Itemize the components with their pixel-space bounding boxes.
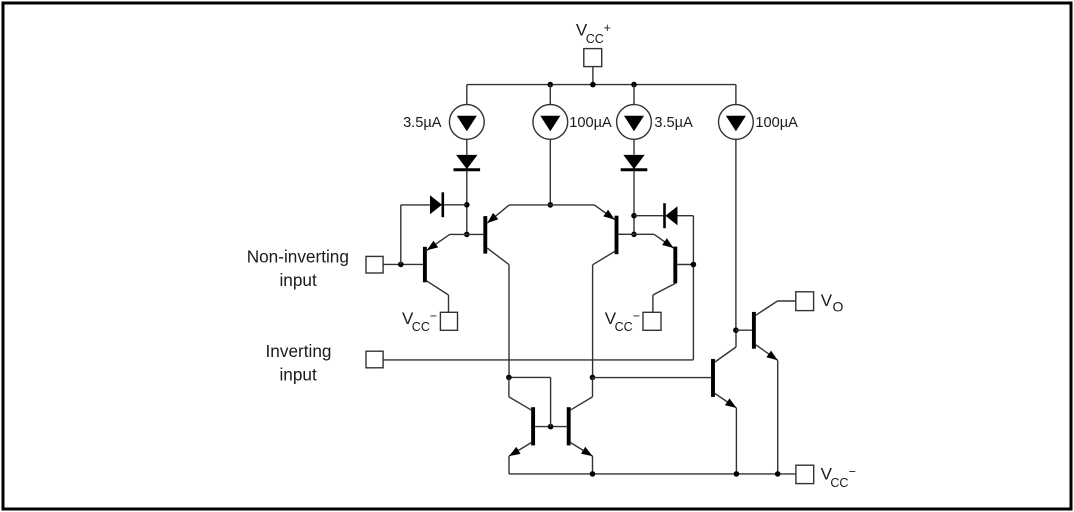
current source I2 100uA arrow triangle [540,116,560,132]
node bottom rail / Q5b emitter [590,471,596,477]
svg-text:−: − [430,309,437,323]
svg-text:O: O [833,299,844,315]
svg-text:CC: CC [830,476,848,490]
wire I3 to D2 [633,139,635,155]
diode D1 (vertical, anode up) [456,155,477,169]
wire node D to Q7 base [736,329,752,331]
wire D4/Q4-base riser to inverting input [692,216,694,360]
wire rail to I3 [633,85,635,105]
node rail-I3 junction [631,82,637,88]
svg-text:CC: CC [412,320,430,334]
wire D4 anode lead [678,215,694,217]
node E1 (Q2 collector / Q5a collector) [506,375,512,381]
svg-text:−: − [849,465,856,479]
transistor Q5b (current mirror output, NPN) base bar [567,407,571,445]
node C1 (D2 cathode / D4 cathode) [631,213,637,219]
svg-text:100µA: 100µA [755,115,798,131]
terminal VO square [796,292,814,311]
svg-text:100µA: 100µA [569,115,612,131]
transistor Q5a (current mirror, diode-connected, NPN) emitter diagonal [509,442,532,456]
wire I2 to node B [549,139,551,205]
diode D4 (input clamp, anode right) [663,203,666,228]
wire node C1 to D4 cathode [634,215,664,217]
wire node B to Q3 emitter [550,204,594,206]
wire mirror base link [535,426,567,428]
wire rail to I4 [735,85,737,105]
transistor Q6 (output driver, NPN) emitter arrow (NPN) [725,398,736,408]
transistor Q3 (diff pair right, PNP) emitter arrow (PNP) [603,210,614,220]
wire Q5b collector riser [592,377,594,397]
wire Q7 collector to VO [778,300,796,302]
transistor Q7 (output, NPN) base bar [752,312,756,349]
node rail-I2 junction [548,82,554,88]
wire D3 anode lead [401,204,430,206]
terminal VCC- (Q4 collector) square [643,312,661,330]
wire rail to I2 [549,85,551,105]
wire Q6 collector riser [735,330,737,347]
current source I4 100uA circle [719,105,754,140]
wire top rail [467,84,736,86]
wire Q1 emitter to node A2 [450,233,467,235]
wire Q1 collector drop [448,295,450,312]
diode D3 (input clamp, anode left) [430,195,442,214]
svg-text:V: V [821,291,833,310]
wire Q2 collector drop [508,265,510,378]
transistor Q4 (inverting input follower, PNP) emitter diagonal [654,234,674,248]
transistor Q2 (diff pair left, PNP) base bar [483,216,487,254]
transistor Q7 (output, NPN) emitter diagonal [756,345,778,361]
transistor Q5a (current mirror, diode-connected, NPN) base bar [531,407,535,445]
transistor Q5b (current mirror output, NPN) emitter diagonal [570,442,592,456]
wire Q5a emitter drop [508,456,510,474]
node A2 (Q1 emitter / Q2 base) [464,232,470,238]
terminal VCC- (bottom rail) square [796,465,814,483]
transistor Q2 (diff pair left, PNP) collector diagonal [487,248,509,265]
transistor Q4 (inverting input follower, PNP) base bar [673,247,677,284]
wire D1 to node A1/A2 [466,170,468,234]
svg-text:Non-inverting: Non-inverting [247,246,349,266]
wire node E2 to Q6 base [593,377,712,379]
wire node E1 to mirror base (diode connection) [509,376,551,378]
node non-inverting input / D3 anode [398,262,404,268]
terminal inverting input square [366,351,383,368]
node bottom rail / Q6 emitter [734,471,740,477]
node Q4 base / inverting riser [691,262,697,268]
transistor Q7 (output, NPN) collector diagonal [756,301,778,315]
transistor Q1 (non-inverting input follower, PNP) emitter arrow (PNP) [427,241,438,251]
svg-text:Inverting: Inverting [266,341,332,361]
wire Q4 collector drop [652,295,654,312]
wire Q4 base to riser [677,264,693,266]
svg-text:3.5µA: 3.5µA [403,115,442,131]
node C2 (Q4 emitter / Q3 base) [631,232,637,238]
transistor Q6 (output driver, NPN) collector diagonal [715,347,736,362]
wire VCC+ stem [592,67,594,85]
transistor Q1 (non-inverting input follower, PNP) collector diagonal [427,281,449,295]
current source I3 3.5uA circle [617,105,652,140]
transistor Q3 (diff pair right, PNP) collector diagonal [593,252,615,265]
transistor Q5a (current mirror, diode-connected, NPN) emitter arrow (NPN) [509,447,521,456]
transistor Q4 (inverting input follower, PNP) emitter arrow (PNP) [662,238,673,248]
transistor Q5a (current mirror, diode-connected, NPN) collector diagonal [509,397,532,410]
wire inverting input run [383,359,693,361]
wire non-inverting input to Q1 base [383,263,423,265]
node rail-VCC+ junction [590,82,596,88]
current source I4 100uA arrow triangle [726,116,746,132]
wire Q7 emitter drop [777,360,779,474]
transistor Q6 (output driver, NPN) base bar [711,359,715,397]
current source I2 100uA circle [533,105,568,140]
svg-text:input: input [279,270,316,290]
diode D2 (vertical, anode up) [623,155,644,169]
transistor Q5b (current mirror output, NPN) emitter arrow (NPN) [581,447,593,456]
terminal non-inverting input square [366,256,383,273]
wire rail to I1 [466,85,468,105]
wire bottom rail [509,473,796,475]
transistor Q5b (current mirror output, NPN) collector diagonal [570,397,592,410]
node G mirror base junction [548,424,554,430]
node D (I4 / Q6 collector / Q7 base) [733,327,739,333]
transistor Q3 (diff pair right, PNP) base bar [615,216,619,255]
terminal VCC- (Q1 collector) square [440,312,457,330]
svg-text:−: − [633,309,640,323]
wire Q5b emitter drop [592,456,594,474]
wire node A2 to Q2 base [467,233,484,235]
transistor Q6 (output driver, NPN) emitter diagonal [715,394,737,408]
transistor Q1 (non-inverting input follower, PNP) emitter diagonal [427,234,450,250]
svg-text:3.5µA: 3.5µA [654,115,693,131]
wire D2 to node C1/C2 [633,170,635,234]
node B (diff pair tail) [548,202,554,208]
current source I1 3.5uA arrow triangle [457,116,477,132]
transistor Q2 (diff pair left, PNP) emitter arrow (PNP) [487,213,498,223]
wire Q3 base to node C2 [619,233,635,235]
current source I1 3.5uA circle [449,105,484,140]
transistor Q1 (non-inverting input follower, PNP) base bar [423,247,427,282]
svg-text:input: input [279,365,316,385]
current source I3 3.5uA arrow triangle [624,116,644,132]
node E2 (Q3 collector / Q5b collector / Q6 base) [590,375,596,381]
svg-text:CC: CC [586,32,604,46]
svg-text:CC: CC [615,320,633,334]
transistor Q7 (output, NPN) emitter arrow (NPN) [766,351,777,361]
wire Q5a collector riser [508,377,510,397]
wire I4 to node D [735,139,737,330]
wire Q6 emitter drop [735,408,737,474]
wire Q2 emitter to node B [509,204,550,206]
transistor Q3 (diff pair right, PNP) emitter diagonal [594,205,614,220]
terminal VCC+ square [584,49,602,67]
wire node C2 to Q4 emitter [634,233,654,235]
node bottom rail / Q7 emitter [775,471,781,477]
wire I1 to D1 [466,139,468,155]
wire D3 anode riser [400,205,402,265]
transistor Q2 (diff pair left, PNP) emitter diagonal [487,205,509,223]
transistor Q4 (inverting input follower, PNP) collector diagonal [653,283,676,295]
node A1 (D1 cathode / D3 cathode) [464,202,470,208]
svg-text:+: + [604,21,611,35]
wire D3 cathode to node A1 [444,204,467,206]
wire Q3 collector drop [592,265,594,378]
